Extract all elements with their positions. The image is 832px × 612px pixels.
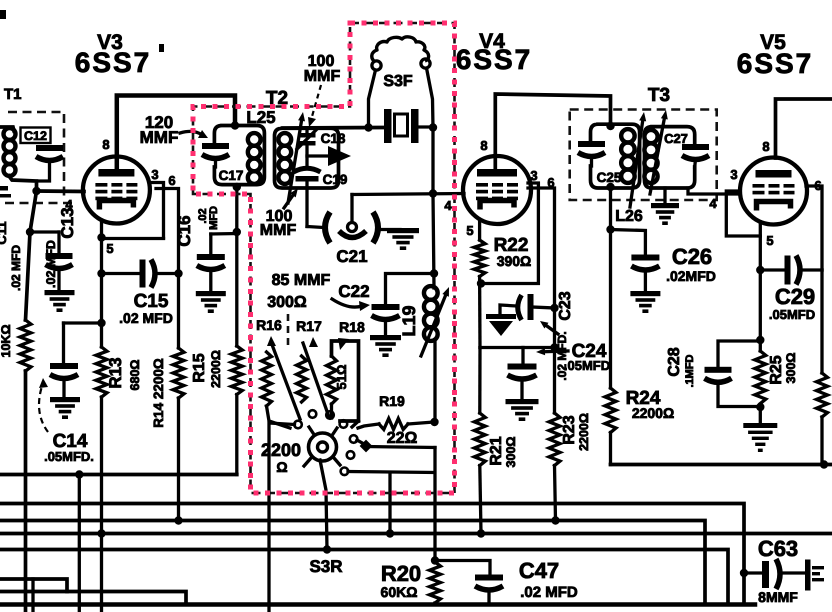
capacitor C14 bbox=[62, 323, 65, 363]
svg-text:C21: C21 bbox=[336, 247, 367, 266]
svg-text:MFD: MFD bbox=[208, 206, 220, 230]
resistor R22 bbox=[474, 240, 485, 277]
bus wire 4 bbox=[0, 550, 728, 605]
ground C23 triangle bbox=[486, 314, 516, 319]
svg-text:L19: L19 bbox=[399, 305, 419, 336]
svg-text:C16: C16 bbox=[175, 215, 194, 246]
tube V5 6SS7 bbox=[740, 158, 807, 225]
wire V5 pin6 bbox=[806, 186, 822, 270]
wire V4 plate to T3 bbox=[495, 94, 610, 169]
capacitor C22 bbox=[386, 274, 435, 305]
resistor R24 bbox=[605, 388, 616, 433]
svg-text:6: 6 bbox=[168, 173, 175, 188]
wire to C13 bbox=[30, 230, 59, 233]
svg-text:T3: T3 bbox=[648, 85, 670, 106]
resistor 10K bbox=[20, 320, 31, 371]
wire C16 branch from T2 bbox=[211, 232, 237, 236]
capacitor C25 bbox=[578, 141, 605, 147]
node T3 primary bottom bbox=[606, 183, 614, 191]
wire C14 branch bbox=[64, 321, 102, 324]
coil T2 secondary bbox=[278, 133, 291, 146]
edge mark left (cut wire) bbox=[0, 186, 8, 191]
svg-text:MMF: MMF bbox=[304, 68, 341, 85]
wire V5 pin3 jog bbox=[726, 191, 760, 236]
svg-text:C47: C47 bbox=[519, 558, 559, 583]
bus wire 3 bbox=[0, 532, 832, 536]
node C26 branch bbox=[606, 225, 614, 233]
coil T3 secondary bbox=[644, 130, 657, 143]
resistor R25 bbox=[755, 351, 766, 404]
ground C16 bbox=[196, 291, 226, 296]
wire V4 cathode bbox=[478, 221, 481, 240]
wire left contact to 2200 bbox=[269, 423, 295, 612]
ground C14 bbox=[50, 397, 80, 402]
transformer T3 dashed box bbox=[570, 110, 717, 201]
wire bottom stair 2 bbox=[0, 592, 186, 605]
coil T2 primary bbox=[248, 133, 261, 146]
capacitor C29 bbox=[760, 268, 784, 271]
coil T3 primary bbox=[621, 129, 635, 143]
svg-text:R15: R15 bbox=[191, 353, 208, 382]
svg-text:C13: C13 bbox=[58, 207, 77, 238]
node T1 output bbox=[32, 187, 40, 195]
wire C24 node bbox=[480, 346, 555, 349]
svg-text:.05MFD: .05MFD bbox=[769, 307, 815, 322]
wire V5 plate bbox=[776, 99, 832, 158]
svg-text:R18: R18 bbox=[339, 319, 365, 335]
ground C22 bbox=[370, 335, 401, 340]
black dashed fragment between labels bbox=[287, 314, 290, 348]
capacitor C47 bbox=[435, 561, 490, 575]
capacitor C12 bbox=[21, 128, 51, 144]
wire cathode V3 bbox=[100, 221, 103, 347]
node T2 top bbox=[231, 121, 239, 129]
resistor R13 bbox=[96, 347, 107, 397]
wire bottom line bbox=[0, 602, 755, 607]
wire bottom contact line bbox=[348, 472, 435, 473]
capacitor C27 bbox=[682, 144, 709, 150]
ground C21 bbox=[387, 228, 419, 233]
svg-text:22Ω: 22Ω bbox=[387, 430, 418, 447]
wire R20 line bbox=[433, 448, 436, 563]
resistor R23 bbox=[549, 413, 560, 466]
svg-text:8: 8 bbox=[762, 139, 769, 154]
bus wire 1 bbox=[0, 504, 744, 605]
slug arrow L19 bbox=[421, 295, 446, 356]
svg-text:C19: C19 bbox=[323, 172, 348, 187]
rotor stubs bbox=[309, 427, 313, 433]
pointer C24 bbox=[545, 349, 568, 353]
switch contacts bbox=[309, 410, 317, 418]
pointer C22 bbox=[332, 299, 362, 307]
svg-text:S3R: S3R bbox=[309, 557, 342, 576]
svg-text:300Ω: 300Ω bbox=[784, 353, 798, 384]
wire grid to V3 bbox=[37, 189, 85, 193]
svg-text:.05MFD: .05MFD bbox=[564, 358, 610, 373]
wire pin3 stub bbox=[150, 183, 164, 239]
wire T2 to crystal bbox=[283, 126, 384, 130]
wire S3F right leg bbox=[427, 68, 434, 128]
svg-text:C26: C26 bbox=[672, 244, 712, 269]
ground C13 bbox=[45, 290, 75, 295]
svg-text:R20: R20 bbox=[381, 561, 421, 586]
capacitor C28 bbox=[718, 341, 760, 367]
svg-text:Ω: Ω bbox=[276, 459, 287, 475]
svg-text:S3F: S3F bbox=[383, 73, 413, 90]
edge mark top-left bbox=[0, 10, 6, 19]
svg-text:L26: L26 bbox=[615, 208, 643, 225]
svg-text:6SS7: 6SS7 bbox=[75, 47, 152, 78]
capacitor C63 bbox=[740, 569, 748, 577]
svg-text:6SS7: 6SS7 bbox=[737, 48, 814, 79]
svg-text:R19: R19 bbox=[379, 393, 405, 409]
svg-text:2200Ω: 2200Ω bbox=[632, 405, 674, 421]
wire resistor bottom bus bbox=[0, 473, 237, 477]
switch S3R rotor bbox=[309, 433, 337, 461]
wire S3F left leg bbox=[369, 70, 376, 128]
svg-text:R14 2200Ω: R14 2200Ω bbox=[151, 358, 166, 428]
svg-text:.02MFD: .02MFD bbox=[666, 268, 716, 284]
wire pin6 stub bbox=[156, 189, 179, 349]
capacitor C19 bbox=[305, 146, 308, 169]
wiper wire S3R bbox=[320, 460, 327, 550]
wire cathode down bbox=[759, 270, 762, 351]
svg-text:51Ω: 51Ω bbox=[334, 365, 349, 390]
capacitor C13 bbox=[57, 232, 60, 253]
slug arrow T2 bbox=[288, 121, 302, 203]
svg-text:C17: C17 bbox=[219, 168, 244, 183]
node R13 bus bbox=[97, 529, 105, 537]
svg-text:.1MFD: .1MFD bbox=[684, 354, 696, 387]
svg-text:MMF: MMF bbox=[260, 222, 297, 239]
transformer T2 secondary box bbox=[275, 128, 339, 188]
wire contact to R20 line bbox=[357, 440, 364, 444]
capacitor C17 bbox=[202, 143, 229, 149]
svg-text:3: 3 bbox=[530, 168, 537, 183]
svg-text:R13: R13 bbox=[106, 357, 125, 388]
svg-text:.02 MFD: .02 MFD bbox=[119, 310, 173, 326]
pointer 100MMF to T2 bbox=[284, 195, 293, 208]
svg-text:5: 5 bbox=[466, 223, 473, 238]
tube V3 6SS7 bbox=[83, 157, 150, 224]
node C22 bbox=[430, 269, 438, 277]
svg-text:300Ω: 300Ω bbox=[504, 437, 518, 468]
pointer dashed C14 bbox=[39, 383, 48, 432]
wire C12 stem bbox=[38, 161, 50, 182]
svg-text:C63: C63 bbox=[758, 536, 798, 561]
resistor R15 bbox=[235, 187, 238, 346]
svg-text:R17: R17 bbox=[296, 318, 322, 334]
svg-text:.02 MFD: .02 MFD bbox=[520, 584, 578, 601]
resistor R21 bbox=[478, 348, 482, 414]
svg-text:.02 MFD: .02 MFD bbox=[44, 240, 58, 288]
svg-text:3: 3 bbox=[730, 167, 737, 182]
wire winding bottom bbox=[9, 176, 37, 192]
svg-text:5: 5 bbox=[106, 241, 113, 256]
transformer T1 dashed box bbox=[8, 112, 64, 200]
wire C21 to ground bbox=[381, 228, 400, 231]
svg-text:4: 4 bbox=[444, 198, 452, 213]
wire to ground bbox=[759, 407, 762, 423]
wire R24 bottom line bbox=[611, 463, 832, 467]
inductor L19 bbox=[424, 286, 438, 300]
pointer C23 bbox=[547, 326, 559, 334]
svg-text:3: 3 bbox=[151, 167, 158, 182]
node T3 primary top bbox=[606, 122, 614, 130]
node C13 branch bbox=[26, 228, 34, 236]
wire S3F line down bbox=[431, 128, 434, 195]
wire C21 top / V4 pin4 bbox=[352, 194, 464, 195]
svg-text:C28: C28 bbox=[666, 347, 683, 376]
resistor R14 bbox=[173, 348, 184, 398]
resistor R18 51 ohm box bbox=[338, 338, 349, 350]
svg-text:6SS7: 6SS7 bbox=[456, 44, 533, 75]
svg-text:C23: C23 bbox=[557, 291, 574, 320]
resistor R16 bbox=[267, 336, 276, 346]
svg-text:MMF: MMF bbox=[140, 128, 179, 147]
wire AVC line down-left bbox=[26, 191, 37, 320]
svg-text:4: 4 bbox=[709, 196, 717, 211]
svg-text:T1: T1 bbox=[4, 86, 22, 103]
pointer 120MMF to C17 bbox=[180, 131, 202, 135]
capacitor C16 bbox=[209, 234, 212, 254]
svg-text:C22: C22 bbox=[338, 282, 369, 301]
wire bottom stair 1 bbox=[0, 579, 67, 592]
svg-text:85 MMF: 85 MMF bbox=[272, 272, 331, 289]
capacitor C24 bbox=[521, 348, 524, 364]
svg-text:.05MFD.: .05MFD. bbox=[44, 449, 94, 464]
svg-text:C15: C15 bbox=[134, 291, 169, 312]
svg-text:R25: R25 bbox=[768, 355, 785, 384]
ground T3 bbox=[651, 203, 679, 208]
resistor right edge bbox=[817, 373, 828, 417]
capacitor C18 bbox=[305, 128, 308, 133]
svg-text:5: 5 bbox=[766, 233, 773, 248]
node pin5 bbox=[97, 233, 105, 241]
slug arrows T3 bbox=[630, 121, 643, 207]
wire T3 secondary ground bbox=[663, 188, 666, 203]
svg-text:680Ω: 680Ω bbox=[128, 360, 142, 391]
svg-text:2200Ω: 2200Ω bbox=[577, 413, 591, 451]
svg-text:390Ω: 390Ω bbox=[497, 253, 532, 269]
capacitor C15 bbox=[102, 272, 140, 275]
wire V5 pin6 resistor line bbox=[820, 270, 823, 373]
ground C28 R25 bbox=[743, 423, 777, 428]
svg-text:C25: C25 bbox=[597, 170, 622, 185]
wire V4 pin6 bbox=[528, 188, 555, 413]
wire V3 plate to T2 bbox=[117, 96, 235, 170]
svg-text:.02 MFD.: .02 MFD. bbox=[555, 331, 569, 380]
resistor R17 bbox=[309, 337, 318, 347]
svg-text:R21: R21 bbox=[488, 436, 505, 465]
node C15 left bbox=[97, 269, 105, 277]
wire C26 branch bbox=[611, 230, 646, 255]
wire pin5 jog bbox=[102, 237, 164, 240]
black dashed band box under highlight bbox=[193, 23, 455, 493]
wire S3F line to L19 bbox=[433, 194, 434, 288]
ground C26 bbox=[630, 291, 660, 296]
svg-text:8: 8 bbox=[102, 137, 109, 152]
wire branch down bbox=[78, 475, 81, 612]
svg-text:C12: C12 bbox=[24, 129, 47, 143]
svg-text:300Ω: 300Ω bbox=[267, 294, 307, 311]
ground C24 bbox=[506, 399, 539, 404]
svg-text:2200Ω: 2200Ω bbox=[209, 350, 223, 388]
svg-text:10KΩ: 10KΩ bbox=[0, 325, 13, 358]
switch S3F wafer bbox=[372, 37, 429, 62]
wire antenna lead bbox=[0, 127, 14, 131]
svg-text:.02 MFD: .02 MFD bbox=[9, 245, 23, 291]
svg-text:2200: 2200 bbox=[261, 440, 301, 460]
svg-text:C11: C11 bbox=[0, 221, 9, 244]
transformer T3 primary box bbox=[591, 124, 640, 188]
transformer T3 secondary box bbox=[645, 127, 695, 188]
bus wire 2 bbox=[0, 521, 705, 605]
wire V4 pin3 bbox=[481, 183, 538, 284]
svg-text:4: 4 bbox=[65, 197, 73, 212]
svg-text:60KΩ: 60KΩ bbox=[381, 584, 418, 600]
crystal S3F capacitor bbox=[384, 109, 392, 143]
wire V5 cathode bbox=[759, 222, 762, 270]
transformer T2 primary box bbox=[214, 126, 264, 185]
capacitor C21 variable bbox=[325, 212, 330, 243]
svg-text:R16: R16 bbox=[256, 317, 282, 333]
coil T1 secondary bbox=[4, 128, 16, 140]
resistor R20 bbox=[430, 562, 441, 603]
svg-text:C29: C29 bbox=[775, 284, 815, 309]
red dotted highlight box bbox=[193, 23, 455, 493]
svg-text:8MMF: 8MMF bbox=[758, 589, 798, 605]
arrow AVC right bbox=[307, 154, 330, 157]
wire C19 to C21 bbox=[307, 227, 324, 228]
capacitor C23 bbox=[518, 295, 522, 320]
capacitor C26 bbox=[631, 255, 659, 261]
dashed pointer 100MMF to C18 bbox=[311, 85, 321, 120]
wire T3 to V5 pin4 bbox=[688, 188, 740, 194]
svg-text:R23: R23 bbox=[561, 415, 578, 444]
svg-text:C18: C18 bbox=[321, 131, 346, 146]
wire stub left bottom bbox=[31, 579, 34, 612]
svg-text:C27: C27 bbox=[664, 131, 688, 146]
tube V4 6SS7 bbox=[463, 156, 531, 224]
wire T3 primary down bbox=[609, 188, 612, 388]
svg-text:8: 8 bbox=[480, 138, 487, 153]
